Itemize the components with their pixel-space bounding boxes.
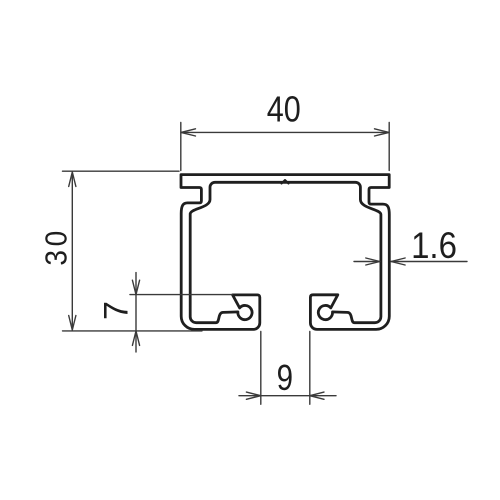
svg-text:7: 7 (97, 301, 135, 320)
dim 7 dimension line (135, 273, 137, 352)
dim 40 right extension line (388, 123, 390, 171)
dim 30 / dim 7 bottom extension line (63, 330, 203, 332)
dim 7 lower arrowhead pointing up (132, 331, 139, 345)
dim 9 right extension line (309, 332, 311, 405)
dim 9 right arrowhead pointing left (310, 392, 324, 399)
dim 30 bottom arrowhead (69, 316, 76, 331)
dim 1.6 right arrowhead pointing left (391, 258, 405, 265)
dim 30 top arrowhead (69, 172, 76, 187)
dim 7 top extension line (130, 294, 232, 296)
dim 40 dimension line (181, 131, 389, 133)
svg-text:1.6: 1.6 (411, 225, 457, 266)
svg-text:9: 9 (277, 357, 293, 397)
center tick mark on channel ceiling (282, 180, 289, 184)
dim 7 upper arrowhead pointing down (132, 280, 139, 294)
dim 40 left extension line (180, 123, 182, 171)
dim 1.6 left leader line (354, 261, 380, 263)
dim 40 left arrowhead (181, 129, 196, 136)
dim 30 dimension line (71, 172, 73, 330)
svg-text:30: 30 (39, 227, 73, 266)
dim 1.6 right leader line (391, 261, 467, 263)
dim 9 dimension line (239, 395, 336, 397)
dim 9 left extension line (260, 332, 262, 405)
dim 9 left arrowhead pointing right (246, 392, 260, 399)
dim 40 right arrowhead (375, 129, 390, 136)
dim 1.6 left arrowhead pointing right (366, 258, 380, 265)
svg-text:40: 40 (267, 90, 301, 130)
dim 30 top extension line (63, 170, 180, 172)
rail profile cross-section outline (181, 175, 389, 330)
